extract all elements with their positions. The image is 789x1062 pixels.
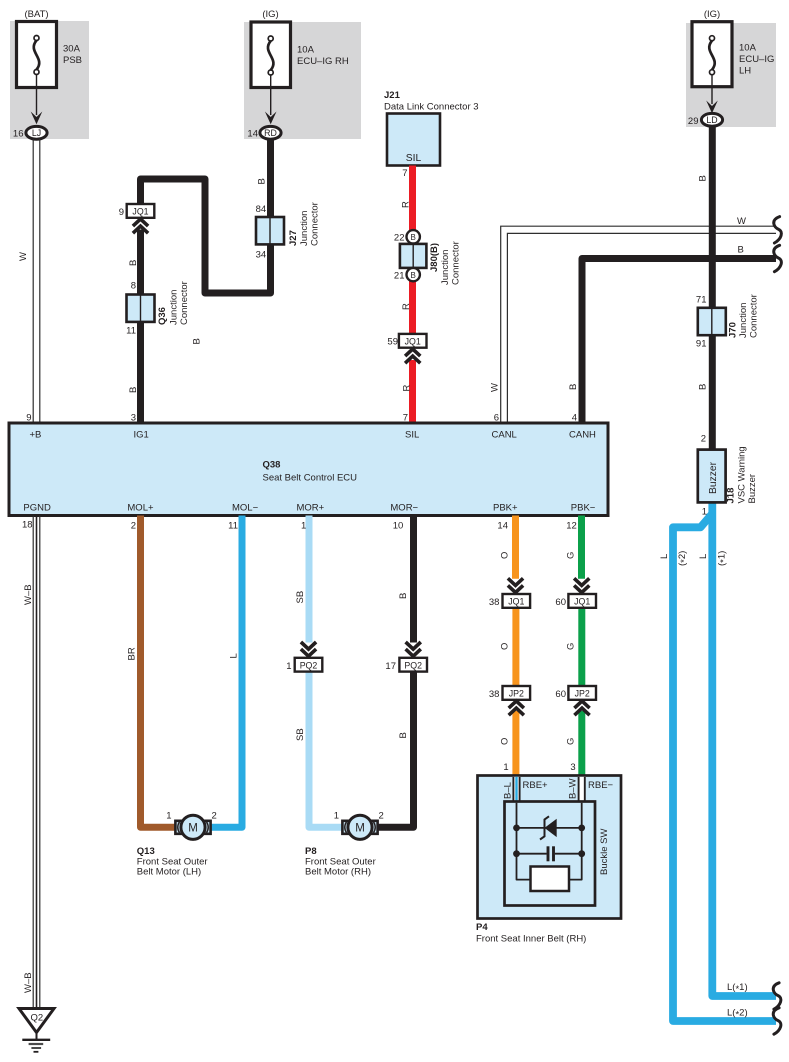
terminal RD pin 14 xyxy=(260,126,281,139)
connector JQ1 pin 60 xyxy=(568,594,596,608)
connector PQ2 pin 1 xyxy=(295,658,323,672)
svg-text:VSC Warning: VSC Warning xyxy=(737,446,748,503)
svg-text:1: 1 xyxy=(166,811,171,822)
svg-text:14: 14 xyxy=(247,129,258,140)
svg-text:W: W xyxy=(18,252,29,261)
svg-text:PQ2: PQ2 xyxy=(300,660,318,670)
page break squiggle L(*1) xyxy=(773,983,781,1009)
svg-text:B: B xyxy=(128,260,139,266)
wire R from JQ1 to ECU SIL xyxy=(409,360,416,423)
wire L branch to page break (*2) xyxy=(673,514,776,1022)
svg-text:Q36: Q36 xyxy=(157,307,168,325)
svg-text:10: 10 xyxy=(393,521,404,532)
svg-text:IG1: IG1 xyxy=(134,430,149,441)
svg-text:W: W xyxy=(490,383,501,392)
wire fuse to terminal LD xyxy=(711,74,713,104)
svg-text:MOL−: MOL− xyxy=(232,503,259,514)
svg-text:2: 2 xyxy=(212,811,217,822)
svg-text:L: L xyxy=(229,653,240,658)
svg-text:BR: BR xyxy=(127,647,138,660)
connector PQ2 pin 17 xyxy=(399,658,427,672)
motor Q13 Front Seat Outer Belt Motor LH xyxy=(175,820,211,835)
svg-text:B: B xyxy=(738,245,744,256)
diode branch wire xyxy=(517,827,582,829)
svg-text:J18: J18 xyxy=(726,488,737,504)
wire SB from ECU MOR+ to PQ2 xyxy=(306,516,313,643)
svg-text:P8: P8 xyxy=(305,846,317,857)
wire fuse to terminal RD xyxy=(270,75,272,115)
svg-text:+B: +B xyxy=(30,430,42,441)
svg-text:J80(B): J80(B) xyxy=(429,243,440,272)
inner rail right xyxy=(568,803,582,880)
svg-text:B–L: B–L xyxy=(503,782,514,799)
svg-text:SB: SB xyxy=(295,728,306,741)
svg-text:Buzzer: Buzzer xyxy=(708,461,719,494)
terminal LJ pin 16 xyxy=(26,126,47,139)
wire B from PQ2 to motor P8 xyxy=(377,672,414,828)
svg-text:Belt Motor (RH): Belt Motor (RH) xyxy=(305,867,371,878)
inner rail left xyxy=(517,803,532,880)
wire B from RD through J27 to JQ1 pin 9 xyxy=(141,139,271,293)
svg-text:L: L xyxy=(698,554,709,559)
svg-text:G: G xyxy=(566,738,577,745)
svg-text:38: 38 xyxy=(489,597,500,608)
svg-text:22: 22 xyxy=(394,233,405,244)
svg-text:PBK−: PBK− xyxy=(571,503,596,514)
svg-text:Seat Belt Control ECU: Seat Belt Control ECU xyxy=(263,473,358,484)
ECU Q38 Seat Belt Control ECU xyxy=(9,423,608,516)
svg-text:7: 7 xyxy=(402,168,407,179)
terminal slot B-W xyxy=(578,777,586,802)
svg-text:JQ1: JQ1 xyxy=(574,597,590,607)
svg-text:SIL: SIL xyxy=(406,153,422,164)
buckle switch inner box xyxy=(505,802,596,906)
svg-text:B: B xyxy=(398,593,409,599)
fuse 30A PSB xyxy=(17,22,57,88)
svg-text:Front Seat Inner Belt (RH): Front Seat Inner Belt (RH) xyxy=(476,934,586,945)
svg-text:9: 9 xyxy=(119,207,124,218)
svg-text:ECU–IG RH: ECU–IG RH xyxy=(297,56,349,67)
connector J21 Data Link Connector 3 xyxy=(387,114,440,166)
svg-text:LD: LD xyxy=(706,115,717,125)
svg-text:M: M xyxy=(188,822,198,834)
wire W CANL from page break to ECU xyxy=(501,226,776,423)
svg-text:14: 14 xyxy=(497,521,508,532)
svg-text:59: 59 xyxy=(387,337,398,348)
svg-text:J27: J27 xyxy=(288,230,299,246)
connector JQ1 pin 38 xyxy=(503,594,531,608)
capacitor branch wire xyxy=(517,853,547,855)
svg-text:11: 11 xyxy=(228,521,238,532)
fuse block shading (BAT) xyxy=(10,21,89,139)
wire O from ECU PBK+ to JQ1 xyxy=(512,516,519,579)
svg-text:R: R xyxy=(400,201,411,208)
svg-text:B: B xyxy=(398,732,409,738)
svg-text:(*2): (*2) xyxy=(677,551,690,566)
svg-text:(IG): (IG) xyxy=(262,9,278,20)
svg-text:21: 21 xyxy=(394,271,405,282)
connector P4 Front Seat Inner Belt RH xyxy=(478,776,622,919)
svg-text:B: B xyxy=(698,384,709,390)
svg-text:MOL+: MOL+ xyxy=(127,503,154,514)
svg-text:B: B xyxy=(698,175,709,181)
chevron arrows into PQ2 pin 17 xyxy=(406,642,421,649)
svg-text:G: G xyxy=(566,643,577,650)
splice B pin 21 xyxy=(407,268,420,281)
chevron arrows into JQ1 pin 59 xyxy=(405,349,420,356)
svg-text:29: 29 xyxy=(688,116,699,127)
svg-text:10A: 10A xyxy=(739,43,757,54)
switch element box xyxy=(531,867,570,892)
svg-text:Data Link Connector 3: Data Link Connector 3 xyxy=(384,102,479,113)
connector JQ1 pin 9 xyxy=(127,204,155,218)
arrow into terminal RD xyxy=(265,112,277,125)
junction connector J70 xyxy=(698,308,726,335)
svg-text:(*1): (*1) xyxy=(717,551,730,566)
ground Q2 xyxy=(19,1009,54,1033)
svg-text:MOR+: MOR+ xyxy=(297,503,325,514)
svg-text:Junction: Junction xyxy=(440,250,451,285)
fuse block shading (IG) center xyxy=(244,22,361,139)
wire SB from PQ2 to motor P8 xyxy=(309,672,343,828)
svg-text:1: 1 xyxy=(702,507,707,518)
svg-text:W–B: W–B xyxy=(23,584,34,605)
svg-text:2: 2 xyxy=(131,521,136,532)
svg-text:B: B xyxy=(411,271,416,280)
svg-text:O: O xyxy=(500,643,511,650)
wire B JQ1 to Q36 xyxy=(137,230,144,297)
svg-text:Junction: Junction xyxy=(169,290,180,325)
svg-text:RD: RD xyxy=(264,128,277,138)
splice B pin 22 xyxy=(407,230,420,243)
svg-text:JQ1: JQ1 xyxy=(132,207,148,217)
svg-text:Connector: Connector xyxy=(310,202,321,246)
fuse 10A ECU-IG RH xyxy=(251,22,291,88)
svg-text:84: 84 xyxy=(256,204,267,215)
svg-text:B: B xyxy=(192,338,203,344)
svg-text:CANL: CANL xyxy=(492,430,517,441)
page break squiggle B xyxy=(774,245,782,271)
svg-text:Connector: Connector xyxy=(749,294,760,338)
wire B from ECU MOR- to PQ2 xyxy=(410,516,417,643)
svg-text:R: R xyxy=(401,303,412,310)
svg-text:Buzzer: Buzzer xyxy=(747,474,758,504)
buzzer J18 VSC Warning Buzzer xyxy=(698,450,726,503)
svg-text:M: M xyxy=(355,822,365,834)
wire L buzzer to page break (*1) xyxy=(712,500,776,996)
svg-text:O: O xyxy=(500,738,511,745)
svg-text:SB: SB xyxy=(295,591,306,604)
chevron arrows into JQ1 pin 60 xyxy=(574,578,589,585)
svg-text:LH: LH xyxy=(739,66,751,77)
svg-text:J70: J70 xyxy=(728,322,739,338)
svg-text:1: 1 xyxy=(286,661,291,672)
svg-text:2: 2 xyxy=(701,434,706,445)
svg-text:PGND: PGND xyxy=(23,503,51,514)
svg-text:1: 1 xyxy=(334,811,339,822)
wire G from ECU PBK- to JQ1 xyxy=(578,516,585,579)
connector JP2 pin 38 xyxy=(503,686,531,700)
svg-text:2: 2 xyxy=(379,811,384,822)
svg-text:PBK+: PBK+ xyxy=(493,503,518,514)
junction dots diode row xyxy=(513,825,520,832)
svg-text:JQ1: JQ1 xyxy=(405,337,421,347)
svg-text:Connector: Connector xyxy=(179,281,190,325)
svg-text:(IG): (IG) xyxy=(704,9,720,20)
svg-text:8: 8 xyxy=(131,281,136,292)
svg-text:MOR−: MOR− xyxy=(390,503,418,514)
fuse block shading (IG) right xyxy=(686,23,776,127)
svg-text:B–W: B–W xyxy=(568,778,579,799)
svg-text:91: 91 xyxy=(696,339,707,350)
junction dots capacitor row xyxy=(513,850,520,857)
svg-text:Q13: Q13 xyxy=(137,846,155,857)
zener diode xyxy=(545,819,557,837)
wire O from JP2 to P4 xyxy=(512,711,519,776)
svg-text:G: G xyxy=(566,552,577,559)
wire B CANH from page break to ECU xyxy=(582,259,776,424)
svg-text:L: L xyxy=(659,554,670,559)
chevron arrows into JQ1 pin 9 xyxy=(133,219,148,226)
svg-text:LJ: LJ xyxy=(32,128,41,138)
wire L from ECU MOL- to motor Q13 xyxy=(210,516,242,828)
svg-text:10A: 10A xyxy=(297,45,315,56)
wire W from LJ to ECU +B xyxy=(32,139,34,423)
connector JQ1 pin 59 xyxy=(399,334,427,348)
junction connector J80(B) xyxy=(400,244,427,268)
svg-text:16: 16 xyxy=(13,129,24,140)
svg-text:3: 3 xyxy=(570,762,575,773)
svg-text:RBE−: RBE− xyxy=(588,780,614,791)
svg-text:B: B xyxy=(411,233,416,242)
svg-text:R: R xyxy=(402,385,413,392)
svg-text:11: 11 xyxy=(126,326,136,337)
svg-text:60: 60 xyxy=(555,689,566,700)
wire B from LD to buzzer J18 xyxy=(709,127,716,451)
terminal LD pin 29 xyxy=(701,113,722,126)
fuse 10A ECU-IG LH xyxy=(692,22,732,87)
svg-text:B: B xyxy=(128,387,139,393)
svg-text:JQ1: JQ1 xyxy=(508,597,524,607)
svg-text:PSB: PSB xyxy=(63,55,82,66)
svg-text:J21: J21 xyxy=(384,90,401,101)
svg-text:(BAT): (BAT) xyxy=(24,9,48,20)
svg-text:18: 18 xyxy=(22,520,33,531)
svg-text:1: 1 xyxy=(503,762,508,773)
motor P8 Front Seat Outer Belt Motor RH xyxy=(342,820,378,835)
chevron arrows into JP2 pin 60 xyxy=(574,701,589,708)
capacitor plates xyxy=(547,846,550,861)
svg-text:JP2: JP2 xyxy=(509,689,524,699)
svg-text:W: W xyxy=(737,216,746,227)
wire O from JQ1 to JP2 xyxy=(512,606,519,686)
wire fuse PSB to terminal LJ xyxy=(36,75,38,116)
svg-text:CANH: CANH xyxy=(569,430,596,441)
svg-text:Connector: Connector xyxy=(451,241,462,285)
chevron arrows into PQ2 pin 1 xyxy=(301,642,316,649)
page break squiggle L(*2) xyxy=(773,1008,781,1034)
svg-text:JP2: JP2 xyxy=(575,689,590,699)
svg-text:12: 12 xyxy=(566,521,577,532)
arrow into terminal LJ xyxy=(31,112,43,125)
svg-text:P4: P4 xyxy=(476,922,488,933)
wire B Q36 to ECU IG1 xyxy=(137,322,144,423)
svg-text:Q2: Q2 xyxy=(30,1013,43,1024)
wire R from J21 to J80 and JQ1 xyxy=(409,166,416,335)
svg-text:W–B: W–B xyxy=(23,972,34,993)
svg-text:Q38: Q38 xyxy=(263,460,281,471)
svg-text:Belt Motor (LH): Belt Motor (LH) xyxy=(137,867,201,878)
junction connector Q36 xyxy=(127,295,155,322)
svg-text:Junction: Junction xyxy=(738,303,749,338)
arrow into terminal LD xyxy=(706,101,718,114)
junction connector J27 xyxy=(256,217,284,244)
connector JP2 pin 60 xyxy=(568,686,596,700)
svg-text:1: 1 xyxy=(301,521,306,532)
svg-text:RBE+: RBE+ xyxy=(523,780,549,791)
wire G from JQ1 to JP2 xyxy=(578,606,585,686)
svg-text:ECU–IG: ECU–IG xyxy=(739,54,774,65)
svg-text:71: 71 xyxy=(696,295,707,306)
svg-text:SIL: SIL xyxy=(405,430,419,441)
svg-text:38: 38 xyxy=(489,689,500,700)
chevron arrows into JP2 pin 38 xyxy=(509,701,524,708)
page break squiggle W xyxy=(774,217,782,243)
wire G from JP2 to P4 xyxy=(578,711,585,776)
terminal slot B-L xyxy=(513,777,521,802)
svg-text:Junction: Junction xyxy=(299,211,310,246)
wire BR from ECU MOL+ to motor Q13 xyxy=(141,516,177,828)
svg-text:O: O xyxy=(500,552,511,559)
svg-text:17: 17 xyxy=(385,661,396,672)
svg-text:34: 34 xyxy=(256,250,267,261)
svg-text:Buckle SW: Buckle SW xyxy=(599,829,610,875)
svg-text:B: B xyxy=(257,178,268,184)
svg-text:PQ2: PQ2 xyxy=(404,660,422,670)
svg-text:B: B xyxy=(568,384,579,390)
chevron arrows into JQ1 pin 38 xyxy=(508,578,523,585)
svg-text:60: 60 xyxy=(555,597,566,608)
wire W-B from ECU PGND to ground xyxy=(32,516,34,1010)
svg-text:30A: 30A xyxy=(63,44,81,55)
